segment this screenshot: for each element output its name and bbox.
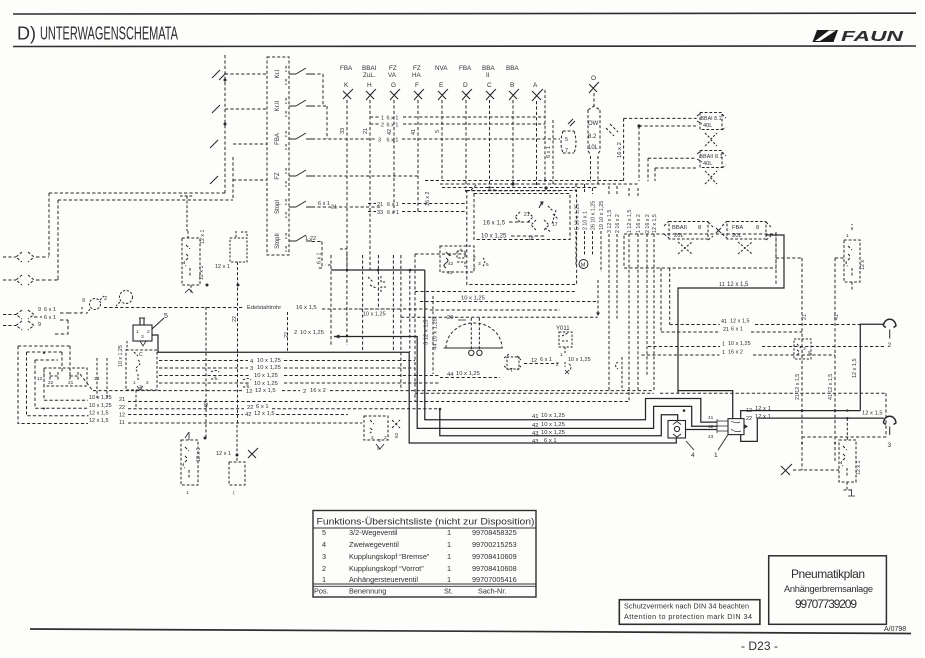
svg-text:3: 3 (378, 438, 381, 444)
wire: valve5 out to 43 6x1 row to comp4 (152, 335, 676, 443)
svg-text:12 x 1: 12 x 1 (200, 230, 206, 244)
svg-text:12 x 1,5: 12 x 1,5 (862, 411, 883, 417)
svg-text:2 16 x 2: 2 16 x 2 (645, 214, 651, 233)
svg-text:22: 22 (247, 405, 253, 411)
svg-text:12 x 1: 12 x 1 (196, 448, 202, 462)
svg-text:- D23 -: - D23 - (741, 639, 778, 653)
svg-text:43: 43 (532, 431, 538, 437)
svg-text:3: 3 (141, 334, 144, 340)
svg-text:9: 9 (38, 322, 41, 328)
coupling 2 (884, 319, 896, 327)
svg-text:10 x 1,25: 10 x 1,25 (89, 395, 112, 401)
test point K (FBA) (340, 65, 353, 270)
box (267, 57, 289, 255)
svg-text:12: 12 (37, 376, 43, 382)
svg-text:10 x 1,25: 10 x 1,25 (541, 430, 565, 436)
svg-text:10L: 10L (588, 145, 599, 151)
svg-text:16 x 1,5: 16 x 1,5 (296, 305, 317, 311)
svg-text:8.2: 8.2 (588, 134, 597, 140)
svg-text:21: 21 (723, 327, 729, 333)
wire: 43 row to comp4 top (440, 409, 678, 436)
svg-text:Sach-Nr.: Sach-Nr. (478, 587, 506, 596)
svg-text:43: 43 (708, 434, 714, 440)
svg-text:16 x 2: 16 x 2 (728, 350, 743, 356)
svg-text:2: 2 (294, 330, 297, 336)
tank BBAII 8.1 40L (648, 150, 726, 184)
vertical dashed joining busses (205, 307, 207, 438)
svg-text:2: 2 (322, 564, 326, 573)
svg-text:10 x 1,25: 10 x 1,25 (363, 312, 386, 318)
svg-text:10 x 1,25: 10 x 1,25 (728, 341, 751, 347)
small valve box 3/5 (794, 339, 811, 359)
left small valve cluster 21/22 (44, 368, 87, 386)
svg-text:6 x 1: 6 x 1 (387, 138, 399, 144)
svg-text:10 10 x 1,25: 10 10 x 1,25 (599, 201, 605, 230)
svg-text:Kupplungskopf “Bremse”: Kupplungskopf “Bremse” (349, 552, 430, 561)
test point H (BBAI ZuL.) (362, 65, 377, 270)
svg-text:4: 4 (250, 359, 254, 365)
svg-text:StopI: StopI (275, 200, 281, 214)
svg-text:2: 2 (384, 435, 387, 441)
svg-text:2: 2 (371, 435, 374, 441)
svg-text:42: 42 (204, 402, 210, 408)
svg-text:B: B (510, 82, 514, 89)
svg-text:21: 21 (524, 212, 530, 218)
wire: comp4 right to comp1 pin 43 (686, 429, 718, 431)
svg-text:10 x 1,25: 10 x 1,25 (257, 365, 281, 371)
svg-text:1: 1 (133, 380, 136, 386)
svg-text:62: 62 (394, 432, 400, 438)
feed above upper spring comp (186, 196, 188, 231)
svg-text:C: C (487, 82, 492, 89)
svg-text:2 10 x 1: 2 10 x 1 (583, 211, 589, 230)
svg-text:10 x 1,25: 10 x 1,25 (456, 371, 480, 377)
horn circle 2 (120, 291, 133, 304)
svg-text:99700215253: 99700215253 (472, 540, 517, 549)
air dryer (561, 131, 576, 153)
svg-text:9: 9 (82, 298, 85, 304)
svg-text:99708410608: 99708410608 (472, 564, 517, 573)
svg-text:8: 8 (698, 225, 701, 231)
svg-text:12 x 1,5: 12 x 1,5 (89, 411, 109, 417)
svg-text:5: 5 (808, 350, 811, 356)
T fitting (504, 354, 521, 370)
box top ticks (471, 185, 496, 190)
flow arrow on 2-line (334, 335, 340, 339)
chevron connector pair 2 (16, 275, 34, 285)
supply line to BBAI tank (624, 117, 697, 119)
svg-text:NVA: NVA (435, 65, 448, 72)
svg-text:16 x 2: 16 x 2 (425, 192, 431, 206)
vertical dashed from valve down (126, 341, 128, 350)
svg-text:6 x 1: 6 x 1 (546, 146, 552, 158)
StopII wire right (305, 236, 323, 268)
StopI wire right (312, 201, 467, 216)
coupling 3 (884, 416, 896, 424)
svg-text:T: T (510, 368, 513, 374)
svg-text:G: G (391, 82, 396, 89)
svg-text:42: 42 (448, 261, 454, 267)
svg-text:FZ: FZ (275, 172, 281, 180)
svg-text:3: 3 (322, 552, 326, 561)
svg-text:Kr.I: Kr.I (275, 69, 281, 78)
svg-text:10 x 1,25: 10 x 1,25 (257, 358, 281, 364)
svg-text:1: 1 (381, 116, 384, 122)
line to horns (54, 307, 82, 334)
title underline rule (13, 45, 916, 48)
bottom right spring comp (839, 440, 856, 490)
svg-text:16 x 1,5: 16 x 1,5 (483, 220, 506, 227)
svg-text:33: 33 (377, 210, 383, 216)
svg-text:3 12 x 1,5: 3 12 x 1,5 (607, 210, 613, 233)
svg-text:3: 3 (478, 261, 481, 267)
feeder vertical 2 (232, 157, 234, 200)
wire: 41 row to comp1 pin41 (425, 270, 717, 422)
svg-text:20L: 20L (674, 233, 684, 239)
svg-text:2: 2 (888, 342, 892, 349)
wire: comp1 out 22 (741, 418, 884, 441)
svg-text:6 x 1: 6 x 1 (387, 210, 399, 216)
svg-text:6 x 1: 6 x 1 (44, 307, 56, 313)
svg-text:FBA: FBA (459, 65, 472, 72)
left edge stubs (3, 257, 16, 280)
svg-text:H: H (367, 82, 372, 89)
svg-text:1: 1 (447, 540, 451, 549)
svg-text:Anhängersteuerventil: Anhängersteuerventil (349, 575, 418, 584)
dryer columns (544, 90, 546, 181)
svg-text:(: ( (233, 490, 235, 496)
svg-text:3 12 x 1,5: 3 12 x 1,5 (424, 320, 430, 345)
svg-text:21 12 x 1,5: 21 12 x 1,5 (795, 374, 801, 400)
drain valve (705, 171, 717, 184)
supply line 2 (639, 125, 696, 127)
svg-text:K: K (344, 82, 349, 89)
svg-text:OW: OW (588, 121, 599, 127)
svg-text:22: 22 (232, 316, 238, 322)
svg-text:1: 1 (722, 342, 725, 348)
pilot box below (126, 350, 157, 390)
svg-text:6 x 1: 6 x 1 (256, 404, 269, 410)
check valves on rows (211, 371, 219, 380)
svg-text:22: 22 (746, 416, 752, 422)
svg-text:2: 2 (147, 329, 150, 335)
svg-text:18: 18 (528, 236, 534, 242)
svg-text:9: 9 (38, 307, 41, 313)
junction dots on solid runs (346, 269, 837, 412)
test X left of spring comp (781, 464, 792, 475)
svg-text:99707005416: 99707005416 (472, 575, 517, 584)
svg-text:Pos.: Pos. (314, 587, 329, 596)
svg-text:BBAII 8.1: BBAII 8.1 (700, 154, 723, 160)
svg-text:10 x 1,25: 10 x 1,25 (481, 233, 507, 240)
svg-text:41: 41 (411, 129, 417, 135)
svg-text:2: 2 (473, 265, 476, 271)
safety valve symbols (515, 206, 558, 232)
svg-text:FZ: FZ (413, 65, 421, 72)
row links to switchbox (225, 74, 267, 180)
svg-text:5: 5 (322, 528, 326, 537)
svg-text:VA: VA (388, 72, 397, 79)
svg-text:6 x 1: 6 x 1 (317, 252, 323, 264)
svg-text:2: 2 (146, 380, 149, 386)
svg-text:BBA: BBA (482, 65, 495, 72)
horn circle 1 (90, 299, 101, 310)
svg-text:FBA: FBA (340, 65, 353, 72)
svg-text:1: 1 (322, 575, 326, 584)
test point G (FZ VA) (387, 65, 400, 213)
svg-text:42: 42 (387, 129, 393, 135)
svg-text:3: 3 (378, 138, 381, 144)
top right spring comp (844, 224, 860, 290)
svg-text:2: 2 (473, 255, 476, 261)
svg-text:Schutzvermerk nach DIN 34 beac: Schutzvermerk nach DIN 34 beachten (624, 602, 749, 611)
svg-text:21: 21 (331, 205, 337, 211)
svg-text:6 x 1: 6 x 1 (540, 357, 552, 363)
svg-text:3/2-Wegeventil: 3/2-Wegeventil (349, 528, 398, 537)
svg-text:D: D (463, 82, 468, 89)
svg-text:1: 1 (447, 552, 451, 561)
svg-text:2: 2 (303, 389, 306, 395)
feeder vertical 1 (224, 55, 226, 193)
Kr.II wire right (312, 106, 327, 139)
top rule (13, 12, 916, 15)
svg-text:Kr.II: Kr.II (275, 100, 281, 111)
right mid dashed horizontals (642, 268, 885, 355)
svg-text:6 x 1: 6 x 1 (44, 315, 56, 321)
wire: supply header y270 (331, 269, 425, 271)
svg-text:FAUN: FAUN (841, 29, 904, 45)
tank BBAI 8.1 40L (697, 112, 726, 146)
chevron connector pair 1 (16, 252, 34, 262)
OW 8.2 10L tank (588, 106, 600, 155)
svg-text:10 x 1,25: 10 x 1,25 (461, 296, 485, 302)
cross bus 2 6x1 (370, 123, 545, 129)
svg-text:12 x 1: 12 x 1 (755, 406, 771, 412)
svg-text:12: 12 (119, 413, 125, 419)
svg-text:10 x 1,25: 10 x 1,25 (568, 357, 591, 363)
svg-text:99708458325: 99708458325 (472, 528, 517, 537)
test point A (532, 82, 543, 184)
svg-text:5: 5 (246, 382, 249, 388)
svg-text:FBA: FBA (732, 225, 743, 231)
feeder verticals down-left (48, 193, 50, 256)
svg-text:42: 42 (708, 424, 714, 430)
svg-text:22: 22 (119, 405, 125, 411)
svg-text:12 x 1,5: 12 x 1,5 (727, 282, 749, 288)
svg-text:1: 1 (447, 564, 451, 573)
svg-text:41: 41 (708, 415, 714, 421)
svg-text:ZuL.: ZuL. (363, 72, 376, 79)
svg-text:BBAI 8.1: BBAI 8.1 (701, 116, 722, 122)
svg-text:5: 5 (435, 130, 441, 133)
lower spring comps (178..245,440..495) (181, 440, 245, 485)
svg-text:1 16 x 2: 1 16 x 2 (636, 214, 642, 233)
wire: 2-line down to 42 row to comp1 pin42 (334, 337, 717, 429)
svg-text:5: 5 (486, 262, 489, 268)
small valve symbol between cols (368, 276, 386, 292)
comp 1 Anhaengersteuerventil (728, 419, 744, 435)
svg-text:1: 1 (186, 490, 189, 496)
label 5 leader (152, 318, 164, 329)
svg-text:10 x 1,25: 10 x 1,25 (118, 345, 124, 367)
svg-text:E: E (439, 82, 444, 89)
svg-text:10 x 1,25: 10 x 1,25 (541, 413, 565, 419)
svg-text:Attention to protection mark D: Attention to protection mark DIN 34 (624, 612, 752, 621)
svg-text:6 x 1: 6 x 1 (731, 327, 743, 333)
svg-text:20: 20 (447, 315, 453, 321)
svg-text:21: 21 (363, 128, 369, 134)
svg-text:12 x 1: 12 x 1 (755, 414, 771, 420)
svg-text:21: 21 (119, 397, 125, 403)
svg-text:1: 1 (449, 252, 452, 258)
svg-text:A: A (533, 82, 538, 89)
link ticks (210, 70, 220, 184)
svg-text:6 x 1: 6 x 1 (387, 116, 399, 122)
svg-text:12 x 1: 12 x 1 (215, 264, 230, 270)
svg-text:Pneumatikplan: Pneumatikplan (791, 567, 865, 581)
svg-text:8: 8 (756, 225, 759, 231)
svg-text:5 10 x 1,25: 5 10 x 1,25 (575, 204, 581, 230)
test point O (589, 75, 599, 106)
svg-text:6 x 1: 6 x 1 (318, 201, 330, 207)
svg-text:41 12 x 1,5: 41 12 x 1,5 (828, 374, 834, 400)
svg-text:Funktions-Übersichtsliste (nic: Funktions-Übersichtsliste (nicht zur Dis… (317, 517, 535, 527)
svg-text:12 x 1,5: 12 x 1,5 (89, 418, 109, 424)
svg-text:F: F (415, 82, 419, 89)
svg-text:12 x 1,5: 12 x 1,5 (730, 319, 750, 325)
columns to 20L tank box (609, 186, 654, 401)
svg-text:17: 17 (552, 222, 558, 228)
svg-text:20L: 20L (732, 233, 742, 239)
svg-text:12 x 1,5: 12 x 1,5 (255, 388, 276, 394)
switch symbols right of box (289, 68, 312, 241)
svg-text:12 x 1,5: 12 x 1,5 (852, 358, 858, 378)
test point F (FZ HA) (411, 65, 424, 213)
svg-text:21: 21 (802, 314, 808, 320)
test point B (BBA) (506, 65, 519, 188)
Kr.I wire right (312, 74, 323, 106)
tank BBAII 8 20L (664, 221, 713, 254)
wire: coupling2 line (860, 324, 884, 410)
svg-text:40L: 40L (703, 123, 712, 129)
FZ wire right (312, 175, 418, 177)
svg-text:6 x 1: 6 x 1 (544, 438, 557, 444)
svg-text:10 x 1,25: 10 x 1,25 (541, 422, 565, 428)
svg-text:1: 1 (447, 575, 451, 584)
svg-text:5: 5 (164, 313, 168, 320)
cross bus 1 6x1 (370, 116, 545, 122)
x between tanks (716, 228, 721, 233)
svg-text:2: 2 (104, 296, 107, 302)
parts table (313, 511, 536, 598)
OW drop lines (590, 156, 592, 182)
svg-text:Edelstahlrohr: Edelstahlrohr (247, 305, 281, 311)
svg-text:2: 2 (214, 374, 217, 380)
svg-text:12 x 1,5: 12 x 1,5 (254, 411, 275, 417)
svg-text:2: 2 (556, 362, 559, 368)
svg-text:1: 1 (560, 352, 563, 358)
svg-text:10 x 1,25: 10 x 1,25 (89, 403, 112, 409)
svg-text:St.: St. (444, 587, 453, 596)
dashed enclosure right part (415, 393, 886, 437)
FBA wire right (312, 138, 560, 140)
svg-text:16 x 2: 16 x 2 (617, 142, 623, 158)
svg-text:21: 21 (377, 202, 383, 208)
svg-text:FBA: FBA (275, 133, 281, 145)
wire: comp1 out 12 (741, 411, 861, 419)
svg-text:Benennung: Benennung (349, 587, 386, 596)
svg-text:FZ: FZ (389, 65, 397, 72)
svg-text:41: 41 (834, 314, 840, 320)
svg-text:10 x 1,25: 10 x 1,25 (254, 381, 278, 387)
schutzvermerk box (619, 600, 760, 625)
svg-text:42: 42 (245, 412, 251, 418)
svg-text:HA: HA (412, 72, 422, 79)
svg-text:12 x 1: 12 x 1 (856, 461, 862, 475)
svg-text:12 x 1,5: 12 x 1,5 (652, 214, 658, 233)
svg-text:BBAI: BBAI (362, 65, 377, 72)
drain valve (705, 133, 717, 146)
svg-text:II: II (486, 72, 490, 79)
diagonal link to 16x2 (606, 124, 618, 136)
test point D (FBA) (459, 65, 472, 188)
44 line below dome (440, 377, 500, 379)
svg-text:1: 1 (722, 350, 725, 356)
row brackets (285, 66, 287, 252)
svg-text:1: 1 (714, 452, 718, 459)
svg-text:1: 1 (136, 329, 139, 335)
svg-text:D): D) (17, 24, 36, 44)
12 6x1 line right (524, 363, 558, 365)
FAUN logo icon (813, 29, 904, 45)
svg-text:12: 12 (531, 358, 537, 364)
svg-text:11: 11 (719, 282, 725, 288)
svg-text:C: C (139, 352, 143, 358)
svg-text:40L: 40L (703, 161, 712, 167)
svg-text:A/0798: A/0798 (884, 626, 906, 633)
svg-text:UNTERWAGENSCHEMATA: UNTERWAGENSCHEMATA (40, 24, 178, 44)
test point E (NVA) (435, 65, 448, 181)
bottom rule (30, 629, 911, 634)
svg-text:12 x 1: 12 x 1 (199, 266, 205, 280)
tank FBA 8 20L (722, 221, 771, 254)
svg-text:12: 12 (746, 408, 752, 414)
pneumatikplan box (769, 556, 887, 625)
svg-text:3: 3 (803, 346, 806, 352)
svg-text:16 x 2: 16 x 2 (310, 388, 326, 394)
svg-text:M: M (581, 263, 586, 269)
feeder ticks (219, 73, 226, 80)
svg-text:33: 33 (340, 128, 346, 134)
svg-text:6 x 1: 6 x 1 (387, 202, 399, 208)
svg-text:4: 4 (691, 452, 695, 459)
chevron connector pair 3 (16, 310, 34, 319)
comp 4 Zweiwegeventil (668, 421, 686, 439)
svg-text:99708410609: 99708410609 (472, 552, 517, 561)
svg-text:Anhängerbremsanlage: Anhängerbremsanlage (784, 584, 873, 594)
bus junction dots (465, 179, 546, 192)
svg-text:3: 3 (888, 442, 892, 449)
svg-text:41: 41 (721, 319, 727, 325)
svg-text:10 x 1,25: 10 x 1,25 (254, 373, 278, 379)
solid supply pipe from FBA tank (678, 235, 784, 393)
svg-text:11: 11 (119, 420, 125, 426)
svg-text:1: 1 (846, 233, 849, 239)
svg-text:StopII: StopII (275, 233, 281, 249)
feeder horizontals to left (49, 192, 225, 194)
svg-text:BBA: BBA (506, 65, 519, 72)
svg-text:99707739209: 99707739209 (795, 597, 857, 611)
